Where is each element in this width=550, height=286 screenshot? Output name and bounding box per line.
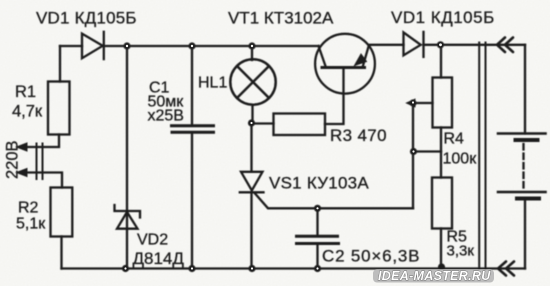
wire gate horizontal bbox=[255, 194, 413, 209]
resistor R3 bbox=[274, 114, 326, 136]
node C1 top bbox=[188, 42, 195, 49]
node C2 top bbox=[314, 205, 321, 212]
wire VS1 cathode to rail bbox=[250, 192, 252, 268]
wire R3 right to VT1 base bbox=[325, 69, 344, 124]
battery GB1 cell 2 bbox=[498, 192, 546, 199]
node HL1/R3/VS1 bbox=[248, 119, 255, 126]
svg-text:VS1 КУ103А: VS1 КУ103А bbox=[269, 174, 369, 193]
wire C1 upper bbox=[191, 46, 193, 125]
wire C1 lower bbox=[191, 133, 193, 269]
wire VD2 to bottom rail bbox=[126, 229, 128, 269]
wire top corner to battery bbox=[524, 45, 526, 134]
svg-text:IDEA-MASTER.RU: IDEA-MASTER.RU bbox=[378, 269, 491, 283]
node VS1 bottom bbox=[248, 265, 255, 272]
node VD2 top bbox=[123, 42, 130, 49]
node HL1 top bbox=[248, 42, 255, 49]
wire HL1 upper bbox=[251, 46, 253, 60]
svg-text:VD1 КД105Б: VD1 КД105Б bbox=[391, 8, 495, 27]
node pinholes (scan artifact) bbox=[124, 43, 442, 269]
wire diode to corner bbox=[424, 44, 526, 46]
svg-text:R1: R1 bbox=[15, 83, 36, 101]
resistor R4 (trimmer) bbox=[433, 78, 453, 128]
resistor R1 bbox=[48, 82, 70, 135]
svg-text:VD1 КД105Б: VD1 КД105Б bbox=[36, 9, 137, 28]
wire gate riser bbox=[412, 103, 414, 208]
lamp HL1 bbox=[230, 59, 275, 104]
R4 wiper arrow bbox=[414, 102, 433, 104]
thyristor VS1 bbox=[240, 172, 264, 193]
svg-text:х25В: х25В bbox=[148, 108, 184, 125]
wire left drop to R1 bbox=[59, 46, 61, 82]
terminal arrow lower 220V bbox=[17, 169, 28, 177]
wire HL1 lower bbox=[252, 105, 253, 172]
diode VD1 left bbox=[82, 32, 104, 59]
connector plug lines X1 bbox=[37, 144, 43, 180]
capacitor C1 bbox=[172, 126, 214, 132]
wire R3 left bbox=[252, 122, 274, 124]
svg-text:4,7к: 4,7к bbox=[12, 103, 43, 121]
node wiper junction bbox=[409, 99, 416, 106]
svg-text:R2: R2 bbox=[18, 200, 39, 217]
svg-text:3,3к: 3,3к bbox=[447, 243, 475, 260]
transistor VT1 emitter arrow bbox=[355, 54, 367, 66]
node VD2 bottom bbox=[122, 265, 129, 272]
node C2 bottom bbox=[314, 265, 321, 272]
connector boundary lines right bbox=[479, 43, 485, 272]
svg-text:R4: R4 bbox=[444, 131, 465, 148]
wire to R4 bbox=[440, 45, 442, 78]
svg-text:100к: 100к bbox=[443, 151, 478, 168]
wire lower terminal to R2 bbox=[20, 173, 62, 188]
battery dashed link bbox=[522, 144, 524, 189]
resistor R2 bbox=[51, 188, 73, 237]
node R5 bottom bbox=[438, 263, 445, 270]
node VD1 right cathode bbox=[437, 41, 444, 48]
wire R2 bottom to rail bbox=[60, 237, 62, 269]
watermark idea-master.ru bbox=[373, 269, 494, 283]
connector chevrons top bbox=[497, 38, 513, 53]
node C1 bottom bbox=[188, 265, 195, 272]
wire bottom rail to battery bbox=[524, 199, 526, 269]
svg-text:R3 470: R3 470 bbox=[330, 126, 387, 145]
wire R4 to R5 bbox=[440, 128, 442, 178]
battery GB1 cell 1 bbox=[498, 134, 546, 141]
wire C2 upper bbox=[316, 208, 318, 235]
svg-text:C2 50×6,3В: C2 50×6,3В bbox=[322, 247, 420, 266]
wire top rail left bbox=[60, 45, 82, 47]
node R4-R5 tap bbox=[410, 148, 417, 155]
wire top rail right segment bbox=[369, 44, 404, 46]
terminal arrow upper 220V bbox=[17, 143, 28, 151]
wire C2 lower bbox=[316, 245, 318, 269]
wire top rail after left diode bbox=[104, 45, 319, 47]
svg-text:HL1: HL1 bbox=[198, 75, 227, 92]
connector chevrons bottom bbox=[498, 262, 514, 276]
wire R1 bottom to input terminal bbox=[20, 135, 59, 148]
resistor R5 bbox=[432, 178, 452, 229]
wire VD2 branch upper bbox=[126, 46, 128, 229]
transistor VT1 bbox=[315, 34, 375, 94]
svg-text:VD2: VD2 bbox=[137, 232, 168, 249]
wire tap to divider bbox=[414, 150, 442, 152]
diode VD1 right bbox=[404, 32, 424, 57]
svg-text:VT1 КТ3102А: VT1 КТ3102А bbox=[228, 9, 334, 28]
wire R5 to bottom rail bbox=[440, 229, 442, 269]
zener VD2 bbox=[115, 205, 141, 229]
svg-text:Д814Д: Д814Д bbox=[133, 249, 185, 268]
wire bottom rail bbox=[62, 267, 526, 269]
capacitor C2 bbox=[297, 236, 339, 243]
svg-text:5,1к: 5,1к bbox=[16, 216, 46, 233]
